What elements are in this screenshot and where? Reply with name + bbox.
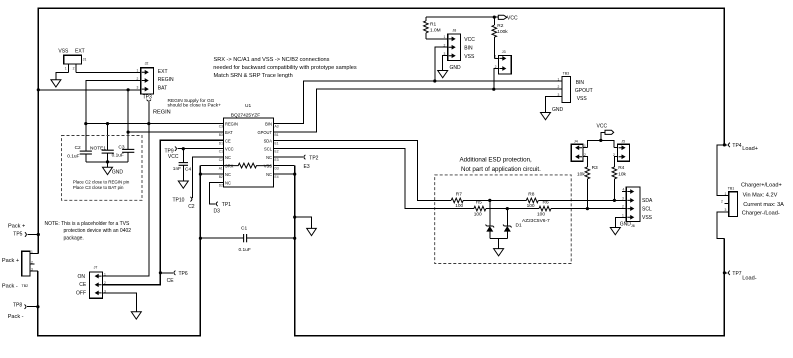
svg-text:TP1: TP1	[222, 202, 231, 208]
ground below VSS riser	[307, 228, 317, 235]
svg-text:3: 3	[725, 208, 727, 212]
svg-text:R5: R5	[476, 200, 482, 206]
svg-text:SCL: SCL	[264, 147, 273, 152]
jumper J1	[58, 49, 86, 73]
connector J8	[444, 29, 476, 61]
svg-text:1: 1	[558, 77, 560, 81]
svg-text:D1: D1	[516, 223, 522, 229]
node C1 left junction	[199, 237, 202, 240]
svg-text:TP7: TP7	[732, 271, 741, 277]
svg-text:J7: J7	[94, 266, 98, 270]
svg-text:VCC: VCC	[507, 15, 518, 21]
pin NC right	[274, 156, 279, 158]
node TP3/ON junction on REGIN wire	[147, 122, 150, 125]
wire SRX row to Pack- riser	[200, 165, 218, 167]
svg-text:B1: B1	[275, 133, 279, 137]
svg-text:needed for backward compatibil: needed for backward compatibility with p…	[213, 65, 357, 71]
capacitor C4 1nF	[173, 149, 192, 181]
wire J6 pin1 to ground	[615, 217, 626, 227]
wire SDA mid	[463, 199, 526, 201]
svg-text:0.1uF: 0.1uF	[239, 247, 251, 253]
svg-text:Load-: Load-	[742, 276, 756, 282]
svg-text:GND: GND	[450, 65, 462, 71]
connector J6	[622, 187, 653, 228]
svg-text:R3: R3	[592, 165, 598, 171]
test point TP10	[173, 157, 219, 210]
svg-text:R6: R6	[543, 200, 549, 206]
connector J2	[137, 62, 175, 94]
svg-text:C3: C3	[219, 125, 223, 129]
svg-text:1: 1	[137, 69, 139, 73]
svg-text:TP4: TP4	[732, 143, 741, 149]
pin GPOUT right	[274, 131, 279, 133]
connector J4	[571, 139, 586, 161]
svg-text:R8: R8	[528, 191, 534, 197]
resistor R2 100k	[492, 17, 508, 58]
wire VSS to TB1 pin3	[717, 212, 729, 239]
resistor R6 100	[537, 200, 551, 218]
test point TP8	[8, 303, 38, 320]
svg-text:TB2: TB2	[22, 284, 29, 288]
svg-text:should be close to Pack+: should be close to Pack+	[168, 103, 222, 109]
resistor R3 10k	[577, 165, 598, 208]
diode D1 AZ23C5V6-7 dual zener	[486, 200, 551, 238]
wire SDA net U1 to ESD	[279, 140, 452, 200]
svg-text:CE: CE	[225, 138, 231, 143]
node TP7 junction	[723, 271, 726, 274]
svg-text:Pack -: Pack -	[2, 283, 18, 289]
svg-text:C2: C2	[188, 204, 195, 210]
capacitor NOTE1 placeholder	[90, 146, 114, 162]
svg-text:CE: CE	[79, 282, 87, 288]
resistor R7 100	[451, 191, 463, 209]
ground below TB3	[541, 107, 564, 120]
svg-text:U1: U1	[245, 103, 251, 109]
power VCC flag top	[498, 15, 518, 21]
svg-text:VCC: VCC	[168, 154, 179, 160]
wire CE net U1 to J7 pin2	[103, 140, 224, 284]
test point TP1	[209, 183, 231, 215]
wire VSS row to VSS riser	[279, 165, 295, 167]
node R4 SDA junction	[613, 199, 616, 202]
svg-text:NOTE: This is a placeholder fo: NOTE: This is a placeholder for a TVS	[45, 221, 131, 227]
svg-text:OFF: OFF	[76, 290, 86, 296]
node TP8 junction	[36, 305, 39, 308]
svg-text:GND: GND	[620, 222, 632, 228]
wire J8 pin2 to BIN net	[435, 47, 448, 81]
pin BIN right	[274, 123, 279, 125]
svg-text:SDA: SDA	[264, 138, 273, 143]
wire VSS bottom-right rail	[295, 166, 725, 336]
svg-text:E3: E3	[304, 164, 310, 170]
node VSS ground branch junction	[293, 216, 296, 219]
svg-text:REGIN: REGIN	[225, 122, 238, 127]
svg-text:ON: ON	[78, 274, 86, 280]
svg-text:AZ23C5V6-7: AZ23C5V6-7	[522, 218, 550, 224]
pin NC 7	[219, 173, 224, 175]
svg-text:BAT: BAT	[158, 86, 167, 92]
svg-text:Additional ESD protection,: Additional ESD protection,	[460, 157, 533, 164]
resistor R5 100	[474, 200, 486, 218]
pin SDA right	[274, 139, 279, 141]
node BAT/C3 junction	[127, 131, 130, 134]
svg-text:J8: J8	[452, 29, 456, 33]
svg-text:SRX -> NC/A1 and VSS -> NC/B2: SRX -> NC/A1 and VSS -> NC/B2 connection…	[214, 57, 330, 63]
resistor R4 10k	[612, 165, 626, 200]
svg-text:BAT: BAT	[225, 130, 233, 135]
wire VCC rail J4 J5	[588, 140, 614, 147]
terminal block TB2	[2, 250, 38, 289]
svg-text:2: 2	[721, 200, 723, 204]
svg-text:C4: C4	[185, 166, 191, 172]
svg-text:J2: J2	[145, 62, 149, 66]
svg-text:NC: NC	[225, 155, 231, 160]
svg-text:C2: C2	[75, 145, 81, 151]
node TP4 junction	[723, 143, 726, 146]
svg-text:C1: C1	[219, 150, 223, 154]
wire SCL to J6 pin2	[551, 208, 626, 210]
svg-text:GPOUT: GPOUT	[257, 130, 272, 135]
wire J4 pin2 to R3	[583, 157, 587, 167]
test point TP3	[143, 94, 152, 123]
wire REGIN row to U1	[86, 123, 224, 125]
svg-text:VSS: VSS	[464, 54, 475, 60]
pin NC 8	[219, 182, 224, 184]
svg-text:1: 1	[725, 192, 727, 196]
svg-text:J6: J6	[631, 224, 635, 228]
svg-text:NC: NC	[266, 155, 272, 160]
ground GND below caps	[103, 167, 124, 175]
node VCC rail junction	[599, 139, 602, 142]
wire SCL mid	[486, 208, 539, 210]
svg-text:1: 1	[495, 55, 497, 59]
svg-text:TP6: TP6	[179, 271, 188, 277]
wire VSS riser branch to ground	[295, 217, 312, 228]
terminal block TB1	[721, 183, 784, 217]
svg-text:TP2: TP2	[309, 155, 318, 161]
test point TP6	[160, 271, 187, 284]
svg-text:TB3: TB3	[563, 72, 570, 76]
svg-text:NC: NC	[266, 172, 272, 177]
op-amp U1 BQ27425YZF fuel gauge IC	[219, 103, 279, 187]
svg-text:VSS: VSS	[58, 49, 69, 55]
svg-text:3: 3	[622, 196, 624, 200]
ground below J7	[131, 312, 141, 319]
test point TP9	[165, 147, 219, 161]
ground below J1	[51, 80, 61, 87]
pin VCC 4	[219, 148, 224, 150]
wire BAT row to U1	[128, 131, 223, 133]
node D1 left junction	[488, 199, 491, 202]
wire Pack+ to TB1 pin1	[717, 145, 729, 196]
svg-text:GND: GND	[552, 107, 564, 113]
wire BIN net U1 to TB3 pin1	[279, 81, 562, 124]
wire SCL net U1 to ESD	[279, 149, 474, 209]
resistor R1 1.0M	[424, 17, 441, 39]
svg-text:D3: D3	[214, 209, 221, 215]
wire NC row7 to Pack- riser	[200, 173, 218, 175]
svg-text:Pack +: Pack +	[2, 258, 19, 264]
ground below J8	[438, 65, 461, 78]
node Pack+/BAT junction on left rail	[37, 88, 40, 91]
node REGIN/C2 junction	[84, 122, 87, 125]
node cap common junction	[106, 160, 109, 163]
ground below J6	[610, 222, 631, 235]
svg-text:EXT: EXT	[75, 49, 85, 55]
svg-text:C1: C1	[241, 226, 247, 232]
svg-text:R1: R1	[430, 22, 436, 28]
node R2 top junction	[493, 16, 496, 19]
svg-text:BIN: BIN	[265, 122, 272, 127]
svg-text:SDA: SDA	[642, 198, 653, 204]
svg-text:VSS: VSS	[642, 215, 653, 221]
node VSS riser row7 junction	[293, 173, 296, 176]
wire J5 pin1 to rail	[614, 147, 618, 149]
pin SRX 6	[219, 165, 224, 167]
svg-text:Pack +: Pack +	[8, 223, 25, 229]
svg-text:NC: NC	[225, 181, 231, 186]
svg-text:E2: E2	[275, 150, 279, 154]
svg-text:B3: B3	[219, 133, 223, 137]
pin BAT 2	[219, 131, 224, 133]
wire EXT J1 pin2 to J2 pin1	[76, 72, 141, 74]
svg-text:Current max: 3A: Current max: 3A	[743, 202, 784, 208]
svg-text:TP10: TP10	[173, 198, 185, 204]
svg-text:10k: 10k	[618, 172, 626, 178]
test point TP5	[8, 223, 38, 237]
resistor R8 100	[526, 191, 538, 209]
svg-text:E4: E4	[275, 175, 279, 179]
svg-text:1.0M: 1.0M	[430, 28, 441, 34]
svg-text:0.1uF: 0.1uF	[112, 152, 124, 158]
svg-text:D1: D1	[219, 141, 223, 145]
svg-text:0.1uF: 0.1uF	[67, 154, 79, 160]
wire Pack- from TB2 pin3 down and along bottom	[38, 166, 201, 336]
svg-text:Place C3 close to BAT pin: Place C3 close to BAT pin	[73, 185, 124, 190]
svg-text:TB1: TB1	[728, 186, 735, 190]
wire VCC rail R1 to flag	[426, 16, 498, 18]
svg-text:C2: C2	[219, 158, 223, 162]
ground below C4	[178, 181, 188, 188]
svg-text:package.: package.	[64, 236, 84, 242]
connector J3	[495, 50, 512, 74]
svg-text:VCC: VCC	[464, 37, 475, 43]
node BIN junction	[433, 79, 436, 82]
svg-text:VCC: VCC	[597, 124, 608, 130]
svg-text:GND: GND	[112, 170, 124, 176]
svg-text:VSS: VSS	[577, 96, 588, 102]
node GPOUT junction	[492, 88, 495, 91]
pin NC right bottom	[274, 173, 279, 175]
svg-text:protection device with an 0402: protection device with an 0402	[64, 228, 132, 234]
node R3 SCL junction	[586, 207, 589, 210]
svg-text:2: 2	[622, 205, 624, 209]
wire J5 pin2 to R4	[614, 157, 617, 167]
svg-text:GPOUT: GPOUT	[575, 88, 593, 94]
svg-text:3: 3	[137, 85, 139, 89]
dashed box ESD	[435, 175, 572, 264]
wire SDA to J6 pin3	[538, 199, 626, 201]
svg-text:1: 1	[622, 213, 624, 217]
svg-text:1: 1	[65, 67, 67, 71]
node REGIN/NOTE1 junction	[106, 122, 109, 125]
svg-text:A1: A1	[219, 167, 223, 171]
svg-text:Load+: Load+	[742, 146, 758, 152]
wire J3 pin2 to GPOUT net	[494, 69, 499, 90]
svg-text:100k: 100k	[497, 29, 508, 35]
svg-text:NC: NC	[225, 172, 231, 177]
svg-text:Charger+/Load+: Charger+/Load+	[741, 183, 782, 189]
pin SCL right	[274, 148, 279, 150]
svg-text:100: 100	[537, 211, 545, 217]
svg-text:SCL: SCL	[642, 207, 652, 213]
wire NC right row7 to VSS riser	[279, 173, 295, 175]
svg-text:TP8: TP8	[13, 303, 22, 309]
svg-text:EXT: EXT	[158, 69, 168, 75]
node C1 right junction	[293, 237, 296, 240]
wire J8 pin3 to ground	[443, 56, 448, 71]
svg-text:D2: D2	[219, 184, 223, 188]
node TP6 junction	[159, 271, 162, 274]
svg-text:1: 1	[31, 250, 33, 254]
svg-text:R2: R2	[497, 23, 503, 29]
wire GPOUT net U1 to TB3 pin2	[279, 89, 562, 132]
svg-text:REGIN: REGIN	[153, 109, 171, 115]
svg-text:Place C2 close to REGIN pin: Place C2 close to REGIN pin	[73, 180, 130, 185]
svg-text:A3: A3	[275, 125, 279, 129]
wire stub to GND	[107, 162, 109, 167]
connector J5	[613, 139, 629, 161]
power VCC flag mid	[597, 124, 614, 135]
wire BAT riser to C3	[127, 90, 129, 150]
wire cap commons	[86, 161, 128, 163]
svg-text:2: 2	[31, 260, 33, 264]
wire R2 to J3 pin1	[494, 57, 498, 59]
wire J1 pin1 to ground	[56, 73, 69, 80]
wire OFF J7 pin3 to ground	[103, 293, 137, 312]
svg-text:2: 2	[73, 67, 75, 71]
node BAT riser junction	[127, 88, 130, 91]
svg-text:B2: B2	[219, 175, 223, 179]
wire REGIN J2 pin2 riser	[86, 81, 141, 152]
svg-text:100: 100	[474, 211, 482, 217]
svg-text:BIN: BIN	[576, 80, 585, 86]
svg-text:10k: 10k	[577, 172, 585, 178]
wire VCC flag to rail	[601, 132, 605, 140]
wire TB3 pin3 to ground	[546, 97, 563, 113]
svg-text:4: 4	[623, 188, 625, 192]
svg-text:D3: D3	[275, 167, 279, 171]
node VCC/C4 junction	[182, 147, 185, 150]
pin VSS right	[274, 165, 279, 167]
wire NOTE1 riser	[107, 124, 109, 151]
dashed box around C2 C3	[62, 136, 143, 201]
test point TP4	[724, 143, 758, 152]
wire BAT J2 pin3 to Pack+ rail	[38, 89, 141, 91]
test point TP7	[724, 271, 756, 282]
svg-text:CE: CE	[167, 278, 175, 284]
wire ON J7 pin1 riser to REGIN	[103, 124, 149, 277]
svg-text:BIN: BIN	[464, 45, 473, 51]
connector J7	[76, 266, 106, 299]
svg-text:REGIN: REGIN	[158, 77, 174, 83]
node TP5 junction	[37, 233, 40, 236]
capacitor C3 0.1uF	[112, 145, 135, 162]
svg-text:1nF: 1nF	[173, 166, 181, 172]
svg-text:Match SRN & SRP Trace length: Match SRN & SRP Trace length	[214, 73, 293, 79]
node Pack- riser row7 junction	[199, 173, 202, 176]
svg-text:2: 2	[558, 85, 560, 89]
resistor internal sense SRX-VSS	[224, 163, 272, 168]
pin CE 3	[219, 139, 224, 141]
capacitor C1	[200, 226, 294, 253]
ground below D1	[494, 249, 504, 256]
svg-text:Charger-/Load-: Charger-/Load-	[742, 211, 780, 217]
svg-text:J3: J3	[502, 50, 506, 54]
svg-text:J1: J1	[83, 57, 87, 61]
capacitor C2 0.1uF	[67, 145, 92, 162]
pin NC 5	[219, 156, 224, 158]
svg-text:TP5: TP5	[13, 231, 22, 237]
svg-text:1: 1	[444, 35, 446, 39]
wire D1 common to ground	[498, 238, 500, 248]
svg-text:E1: E1	[275, 141, 279, 145]
svg-text:Vin Max: 4.2V: Vin Max: 4.2V	[743, 193, 778, 199]
svg-text:R4: R4	[618, 165, 624, 171]
svg-text:Not part of application circui: Not part of application circuit.	[461, 166, 541, 173]
pin REGIN 1	[219, 123, 224, 125]
node D1 right junction	[506, 207, 509, 210]
wire R1 to J8 pin1	[426, 38, 448, 40]
svg-text:VCC: VCC	[225, 147, 234, 152]
svg-text:3: 3	[31, 268, 33, 272]
svg-text:E3: E3	[275, 158, 279, 162]
svg-text:Pack -: Pack -	[8, 314, 24, 320]
wire J4 pin1 to rail	[583, 147, 588, 149]
svg-text:J4: J4	[574, 139, 578, 143]
wire Pack+ top rail	[38, 8, 724, 253]
svg-text:J5: J5	[621, 139, 625, 143]
test point TP2	[279, 155, 319, 170]
svg-text:R7: R7	[456, 191, 462, 197]
terminal block TB3	[558, 72, 593, 103]
